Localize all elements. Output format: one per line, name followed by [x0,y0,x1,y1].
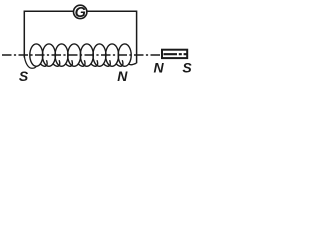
svg-text:S: S [19,68,29,84]
svg-text:N: N [117,68,128,84]
magnet bar body [162,50,187,58]
wire circuit loop [24,11,136,63]
galvanometer G circle [74,5,87,18]
magnet inner dash-dot axis [164,53,188,55]
svg-text:N: N [153,60,164,76]
axis dash-dot line [2,54,162,56]
svg-text:S: S [182,60,192,76]
coil entry arc from left wire [24,56,36,68]
coil L1 (8 round turns with bottom curls) [30,44,137,66]
svg-text:G: G [75,5,86,21]
